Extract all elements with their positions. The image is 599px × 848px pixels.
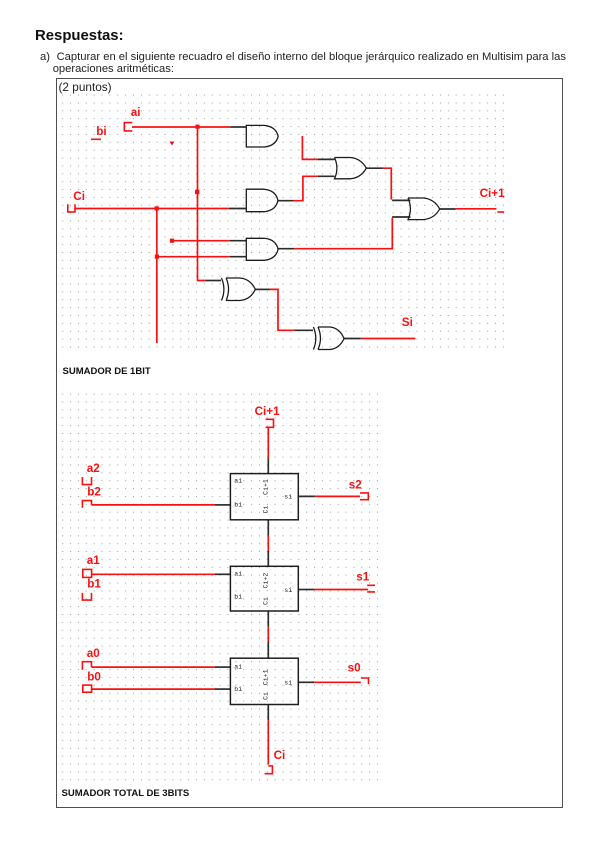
svg-text:ai: ai xyxy=(234,664,242,671)
svg-text:Ci: Ci xyxy=(73,190,85,203)
svg-text:b2: b2 xyxy=(87,485,101,498)
svg-text:ai: ai xyxy=(131,106,141,119)
svg-text:Ci+1: Ci+1 xyxy=(263,479,270,495)
svg-text:Si: Si xyxy=(402,316,413,329)
svg-text:a2: a2 xyxy=(87,462,101,475)
svg-text:s2: s2 xyxy=(349,478,363,491)
svg-text:Ci+2: Ci+2 xyxy=(263,573,270,589)
svg-text:a1: a1 xyxy=(87,554,101,567)
svg-text:ai: ai xyxy=(234,478,242,485)
svg-text:bi: bi xyxy=(234,686,242,693)
svg-text:Ci: Ci xyxy=(263,597,270,605)
svg-text:SUMADOR TOTAL DE 3BITS: SUMADOR TOTAL DE 3BITS xyxy=(62,788,190,799)
svg-text:a0: a0 xyxy=(87,647,101,660)
svg-text:Ci+1: Ci+1 xyxy=(263,669,270,685)
svg-text:si: si xyxy=(284,679,292,686)
svg-text:b0: b0 xyxy=(87,670,101,683)
svg-text:SUMADOR DE 1BIT: SUMADOR DE 1BIT xyxy=(63,366,151,377)
svg-text:Ci: Ci xyxy=(274,749,286,762)
svg-text:bi: bi xyxy=(234,502,242,509)
svg-text:si: si xyxy=(284,493,292,500)
svg-text:si: si xyxy=(284,587,292,594)
svg-text:bi: bi xyxy=(96,125,106,138)
svg-text:b1: b1 xyxy=(87,578,101,591)
svg-text:ai: ai xyxy=(234,571,242,578)
svg-text:bi: bi xyxy=(234,593,242,600)
svg-text:s0: s0 xyxy=(348,662,362,675)
svg-text:Ci+1: Ci+1 xyxy=(480,187,506,200)
svg-text:Ci: Ci xyxy=(263,692,270,700)
svg-text:s1: s1 xyxy=(356,571,370,584)
svg-text:Ci+1: Ci+1 xyxy=(255,405,281,418)
svg-text:Ci: Ci xyxy=(263,506,270,514)
